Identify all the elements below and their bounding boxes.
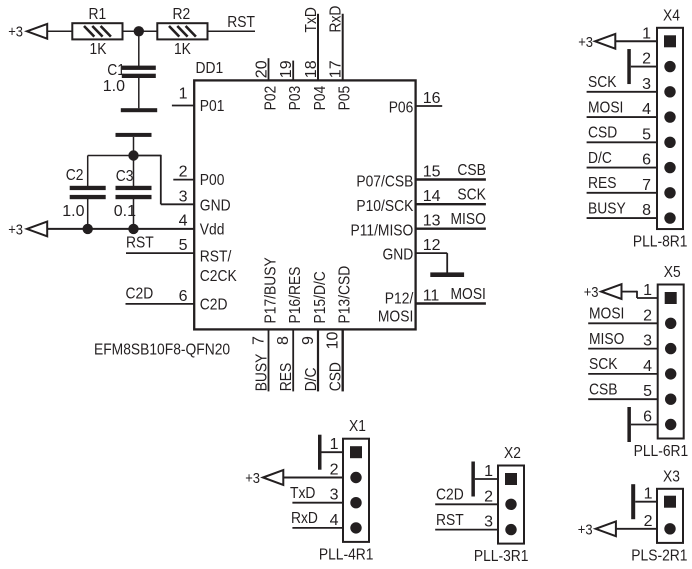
wire CSD to X4 pin 5 — [587, 141, 657, 143]
wire DD1 pin 15 to CSB — [416, 178, 486, 180]
wire MOSI to X5 pin 2 — [588, 322, 658, 324]
X1 pin 3 number — [330, 487, 339, 504]
svg-text:DD1: DD1 — [196, 60, 224, 77]
capacitor C1 — [122, 66, 156, 78]
DD1 pin name P02 — [263, 86, 280, 111]
DD1 pin 9 number — [300, 336, 317, 345]
DD1 pin name P13/CSD — [337, 266, 354, 324]
svg-text:D/C: D/C — [588, 150, 612, 167]
part label PLL-8R1 (X4) — [633, 234, 688, 251]
DD1 pin 20 stub — [268, 58, 270, 80]
svg-text:15: 15 — [423, 164, 441, 181]
wire C1 to ground — [138, 78, 140, 109]
svg-text:5: 5 — [642, 126, 651, 143]
net label RxD — [328, 6, 345, 33]
DD1 pin 14 number — [423, 188, 441, 205]
label DD1 — [196, 60, 224, 77]
wire DD1 pin 13 to MISO — [416, 227, 486, 229]
svg-text:1: 1 — [643, 282, 652, 299]
wire R1 to R2 — [123, 30, 158, 32]
label C2 — [66, 167, 84, 184]
wire MOSI to X4 pin 4 — [587, 116, 657, 118]
X1 pin 4 contact — [350, 522, 361, 533]
X1 pin 1 number — [330, 436, 339, 453]
wire DD1 pin 14 to SCK — [416, 203, 486, 205]
svg-text:C2D: C2D — [200, 297, 228, 314]
X2 pin 3 contact — [505, 524, 516, 535]
svg-text:+3: +3 — [584, 284, 599, 301]
svg-text:0.1: 0.1 — [114, 203, 136, 220]
DD1 pin 4 number — [179, 213, 188, 230]
svg-text:8: 8 — [275, 336, 292, 345]
net label CSB (pin 15) — [457, 162, 486, 179]
wire X2 pin 1 to ground — [475, 478, 498, 480]
DD1 pin 19 stub — [292, 61, 294, 81]
svg-text:P15/D/C: P15/D/C — [312, 271, 329, 323]
svg-text:+3: +3 — [578, 34, 593, 51]
power +3 flag (Vdd rail) — [8, 221, 47, 238]
X4 pin 1 contact (square) — [664, 35, 676, 47]
X2 pin 2 contact — [505, 499, 516, 510]
svg-text:10: 10 — [325, 332, 342, 350]
svg-text:R1: R1 — [89, 6, 107, 23]
svg-text:SCK: SCK — [588, 74, 617, 91]
X4 pin 8 contact — [664, 212, 675, 223]
DD1 pin 1 number — [179, 86, 188, 103]
svg-text:PLS-2R1: PLS-2R1 — [631, 547, 687, 564]
svg-text:+3: +3 — [245, 470, 260, 487]
wire +3 to X5 pin 1 — [622, 291, 658, 298]
label X5 — [664, 264, 681, 281]
DD1 pin name GND (pin 12) — [383, 247, 414, 264]
wire X5 pin 6 to ground — [631, 424, 658, 426]
svg-text:13: 13 — [423, 213, 441, 230]
part label PLL-4R1 (X1) — [319, 546, 374, 563]
DD1 pin 7 number — [251, 336, 268, 345]
DD1 pin 16 stub — [416, 105, 443, 107]
part label PLL-6R1 (X5) — [634, 443, 689, 460]
wire TxD to DD1 pin 18 — [317, 14, 319, 81]
junction node C2/+3 rail — [83, 224, 93, 234]
connector X3 body — [657, 489, 683, 543]
connector X1 body — [343, 439, 369, 542]
net label MISO (X5) — [589, 331, 624, 348]
DD1 pin 3 number — [179, 188, 188, 205]
DD1 pin 17 number — [328, 60, 345, 78]
net label TxD — [303, 7, 320, 32]
svg-text:C1: C1 — [107, 62, 125, 79]
svg-text:CSD: CSD — [328, 362, 345, 391]
svg-text:X4: X4 — [663, 7, 680, 24]
wire BUSY to X4 pin 8 — [587, 217, 657, 219]
svg-text:3: 3 — [643, 333, 652, 350]
wire RES to X4 pin 7 — [587, 192, 657, 194]
net label SCK (X5) — [589, 356, 618, 373]
junction node GND/C2/C3 — [128, 150, 138, 160]
DD1 pin 18 number — [303, 60, 320, 78]
wire GND net to DD1 pin 3 — [134, 155, 195, 205]
ground bar (pin 12) — [430, 272, 464, 277]
svg-text:2: 2 — [644, 513, 653, 530]
DD1 pin name P06 — [389, 100, 414, 117]
svg-text:4: 4 — [330, 512, 339, 529]
svg-text:P11/MISO: P11/MISO — [351, 223, 414, 240]
DD1 pin 10 wire — [342, 329, 344, 391]
X5 pin 2 number — [643, 307, 652, 324]
net label RES (pin 8) — [278, 363, 295, 392]
svg-text:2: 2 — [179, 164, 188, 181]
svg-text:11: 11 — [423, 288, 440, 305]
net label CSD (pin 10) — [328, 362, 345, 391]
svg-text:CSB: CSB — [589, 382, 618, 399]
ground bar (X3) — [631, 484, 635, 519]
X1 pin 3 contact — [350, 497, 361, 508]
X3 pin 1 contact (square) — [664, 496, 676, 508]
svg-text:MOSI: MOSI — [589, 306, 624, 323]
DD1 pin 12 number — [423, 237, 441, 254]
DD1 pin 9 wire — [317, 329, 319, 391]
X1 pin 2 number — [330, 462, 339, 479]
svg-text:C2D: C2D — [126, 285, 154, 302]
svg-text:MISO: MISO — [451, 211, 486, 228]
svg-text:P04: P04 — [312, 86, 329, 111]
DD1 pin name P04 — [312, 86, 329, 111]
ground bar (X4) — [627, 49, 631, 84]
svg-text:2: 2 — [330, 462, 339, 479]
wire C2 to +3 rail — [87, 199, 89, 229]
svg-text:6: 6 — [643, 409, 652, 426]
svg-text:P01: P01 — [200, 98, 225, 115]
X5 pin 6 contact — [665, 419, 676, 430]
wire X4 pin 2 to ground — [631, 66, 657, 68]
DD1 pin 6 number — [179, 288, 188, 305]
X3 pin 2 number — [644, 513, 653, 530]
svg-text:X1: X1 — [349, 418, 366, 435]
DD1 pin name P03 — [287, 86, 304, 111]
svg-text:C2D: C2D — [436, 487, 464, 504]
power +3 flag (X5) — [584, 284, 622, 301]
net label MISO (pin 13) — [451, 211, 486, 228]
net label CSB (X5) — [589, 382, 618, 399]
svg-text:CSB: CSB — [457, 162, 486, 179]
svg-text:P06: P06 — [389, 100, 414, 117]
X4 pin 3 contact — [664, 86, 675, 97]
svg-text:X5: X5 — [664, 264, 681, 281]
wire DD1 pin 11 to MOSI — [416, 302, 486, 304]
svg-text:20: 20 — [254, 60, 271, 78]
svg-text:2: 2 — [484, 488, 493, 505]
wire CSB to X5 pin 5 — [588, 398, 658, 400]
svg-text:MOSI: MOSI — [588, 99, 623, 116]
X5 pin 3 number — [643, 333, 652, 350]
svg-text:14: 14 — [423, 188, 441, 205]
wire +3 to X1 pin 2 — [283, 477, 343, 479]
connector X4 body — [657, 28, 683, 229]
DD1 pin name P16/RES — [287, 267, 304, 324]
X1 pin 1 contact (square) — [350, 446, 362, 458]
X4 pin 7 number — [642, 177, 651, 194]
X4 pin 2 contact — [664, 61, 675, 72]
DD1 pin 19 number — [278, 60, 295, 78]
svg-text:RST: RST — [126, 235, 154, 252]
svg-text:RES: RES — [278, 363, 295, 392]
net label BUSY (X4) — [588, 200, 626, 217]
svg-text:CSD: CSD — [588, 125, 617, 142]
svg-text:3: 3 — [179, 188, 188, 205]
label X3 — [663, 468, 680, 485]
svg-text:P02: P02 — [263, 86, 280, 111]
capacitor C3 — [116, 186, 152, 199]
svg-text:2: 2 — [642, 51, 651, 68]
svg-text:1K: 1K — [90, 41, 107, 58]
DD1 pin 20 number — [254, 60, 271, 78]
label R2 — [173, 6, 191, 23]
svg-text:P05: P05 — [337, 86, 354, 111]
connector X5 body — [658, 285, 684, 439]
wire C2D to DD1 pin 6 — [126, 303, 195, 305]
net label CSD (X4) — [588, 125, 617, 142]
DD1 pin name P10/SCK — [356, 198, 413, 215]
svg-text:1: 1 — [484, 463, 493, 480]
net label TxD (X1) — [290, 485, 315, 502]
svg-text:6: 6 — [642, 152, 651, 169]
svg-text:1: 1 — [644, 486, 653, 503]
net label BUSY (pin 7) — [253, 353, 270, 391]
svg-text:18: 18 — [303, 60, 320, 78]
op IC DD1 body — [194, 80, 415, 329]
svg-text:1: 1 — [642, 25, 651, 42]
value 1.0 (C1) — [103, 78, 125, 95]
svg-text:+3: +3 — [8, 24, 23, 41]
DD1 pin name P12/MOSI — [378, 291, 414, 326]
X3 pin 1 number — [644, 486, 653, 503]
svg-text:1: 1 — [179, 86, 188, 103]
power +3 flag (X3) — [578, 521, 616, 538]
X4 pin 3 number — [642, 76, 651, 93]
svg-text:8: 8 — [642, 202, 651, 219]
DD1 pin name P00 — [200, 172, 225, 189]
svg-text:PLL-4R1: PLL-4R1 — [319, 546, 374, 563]
svg-text:EFM8SB10F8-QFN20: EFM8SB10F8-QFN20 — [94, 342, 230, 359]
net label MOSI (X5) — [589, 306, 624, 323]
X4 pin 5 number — [642, 126, 651, 143]
DD1 pin 1 stub — [172, 105, 194, 107]
svg-text:MOSI: MOSI — [451, 286, 486, 303]
net label RST (top) — [227, 14, 255, 31]
svg-text:RST: RST — [436, 512, 464, 529]
label R1 — [89, 6, 107, 23]
part label PLS-2R1 (X3) — [631, 547, 687, 564]
svg-text:1: 1 — [330, 436, 339, 453]
svg-text:C2CK: C2CK — [200, 268, 237, 285]
svg-text:X3: X3 — [663, 468, 680, 485]
DD1 pin name GND — [200, 198, 231, 215]
X5 pin 2 contact — [665, 318, 676, 329]
resistor R1 — [72, 23, 122, 39]
label C3 — [116, 168, 134, 185]
DD1 pin 2 stub — [173, 179, 194, 181]
DD1 pin 8 number — [275, 336, 292, 345]
DD1 pin name C2D — [200, 297, 228, 314]
DD1 pin 2 number — [179, 164, 188, 181]
svg-text:MOSI: MOSI — [378, 309, 413, 326]
svg-text:4: 4 — [179, 213, 188, 230]
net label RxD (X1) — [291, 510, 318, 527]
value 1K (R2) — [174, 41, 191, 58]
DD1 pin 10 number — [325, 332, 342, 350]
X5 pin 4 number — [643, 358, 652, 375]
DD1 pin 5 number — [179, 237, 188, 254]
svg-text:3: 3 — [642, 76, 651, 93]
wire junction to C1 — [138, 31, 140, 66]
svg-text:4: 4 — [642, 101, 651, 118]
X4 pin 6 number — [642, 152, 651, 169]
svg-text:+3: +3 — [8, 221, 23, 238]
DD1 pin 15 number — [423, 164, 441, 181]
label X1 — [349, 418, 366, 435]
svg-text:R2: R2 — [173, 6, 191, 23]
X5 pin 6 number — [643, 409, 652, 426]
svg-text:MISO: MISO — [589, 331, 624, 348]
X4 pin 4 contact — [664, 111, 675, 122]
svg-text:RES: RES — [588, 175, 617, 192]
net label RST (X2) — [436, 512, 464, 529]
capacitor C2 — [70, 186, 106, 199]
wire RST to X2 pin 3 — [435, 529, 498, 531]
svg-text:7: 7 — [642, 177, 651, 194]
svg-text:P17/BUSY: P17/BUSY — [263, 257, 280, 323]
X5 pin 5 number — [643, 383, 652, 400]
X5 pin 1 number — [643, 282, 652, 299]
X5 pin 4 contact — [665, 368, 676, 379]
ground bar (X5) — [627, 407, 631, 442]
svg-text:SCK: SCK — [457, 187, 486, 204]
svg-text:P07/CSB: P07/CSB — [356, 173, 413, 190]
svg-text:1K: 1K — [174, 41, 191, 58]
wire junction to C3 — [133, 156, 135, 187]
svg-text:C2: C2 — [66, 167, 84, 184]
junction node R1/R2/C1 — [134, 26, 144, 36]
junction node C3/+3 rail — [128, 224, 138, 234]
svg-text:GND: GND — [200, 198, 231, 215]
DD1 pin 16 number — [423, 90, 441, 107]
net label SCK (pin 14) — [457, 187, 486, 204]
wire +3 to R1 — [47, 30, 72, 32]
X4 pin 2 number — [642, 51, 651, 68]
net label D/C (X4) — [588, 150, 612, 167]
svg-text:3: 3 — [330, 487, 339, 504]
X1 pin 2 contact — [350, 472, 361, 483]
svg-text:RxD: RxD — [291, 510, 318, 527]
power +3 flag (X1) — [245, 470, 283, 487]
DD1 pin name P11/MISO — [351, 223, 414, 240]
X4 pin 1 number — [642, 25, 651, 42]
wire MISO to X5 pin 3 — [588, 348, 658, 350]
X4 pin 8 number — [642, 202, 651, 219]
wire RST to DD1 pin 5 — [126, 252, 195, 254]
net label D/C (pin 9) — [303, 368, 320, 392]
DD1 pin 11 number — [423, 288, 440, 305]
X4 pin 7 contact — [664, 187, 675, 198]
DD1 pin 13 number — [423, 213, 441, 230]
svg-text:19: 19 — [278, 60, 295, 78]
ground bar (GND net) — [116, 133, 152, 137]
X2 pin 1 contact (square) — [505, 473, 517, 485]
svg-text:D/C: D/C — [303, 368, 320, 392]
svg-text:P13/CSD: P13/CSD — [337, 266, 354, 324]
svg-text:1.0: 1.0 — [62, 203, 84, 220]
label X2 — [504, 445, 521, 462]
svg-text:BUSY: BUSY — [588, 200, 626, 217]
wire +3 to X3 pin 2 — [616, 528, 657, 530]
part label PLL-3R1 (X2) — [474, 548, 529, 565]
ground bar (C1) — [121, 108, 157, 112]
svg-text:12: 12 — [423, 237, 441, 254]
X4 pin 4 number — [642, 101, 651, 118]
part number EFM8SB10F8-QFN20 — [94, 342, 230, 359]
svg-text:GND: GND — [383, 247, 414, 264]
svg-text:7: 7 — [251, 336, 268, 345]
net label MOSI (pin 11) — [451, 286, 486, 303]
connector X2 body — [498, 466, 524, 544]
wire C2D to X2 pin 2 — [435, 503, 498, 505]
value 0.1 (C3) — [114, 203, 136, 220]
net label C2D (X2) — [436, 487, 464, 504]
net label SCK (X4) — [588, 74, 617, 91]
wire RxD to DD1 pin 17 — [342, 14, 344, 81]
net label RST (pin 5) — [126, 235, 154, 252]
X2 pin 2 number — [484, 488, 493, 505]
wire D/C to X4 pin 6 — [587, 167, 657, 169]
svg-text:Vdd: Vdd — [200, 222, 225, 239]
DD1 pin name P05 — [337, 86, 354, 111]
DD1 pin name P17/BUSY — [263, 257, 280, 323]
svg-text:P10/SCK: P10/SCK — [356, 198, 413, 215]
svg-text:+3: +3 — [578, 521, 593, 538]
value 1K (R1) — [90, 41, 107, 58]
svg-text:RST: RST — [227, 14, 255, 31]
svg-text:P16/RES: P16/RES — [287, 267, 304, 324]
DD1 pin name P07/CSB — [356, 173, 413, 190]
svg-text:3: 3 — [484, 514, 493, 531]
net label C2D (pin 6) — [126, 285, 154, 302]
svg-text:X2: X2 — [504, 445, 521, 462]
svg-text:PLL-3R1: PLL-3R1 — [474, 548, 529, 565]
ground bar (X1) — [318, 435, 322, 470]
power +3 flag (top left) — [8, 24, 47, 41]
wire X1 pin 1 to ground — [321, 451, 343, 453]
svg-text:16: 16 — [423, 90, 441, 107]
DD1 pin 8 wire — [292, 329, 294, 391]
wire SCK to X4 pin 3 — [587, 91, 657, 93]
wire X3 pin 1 to ground — [635, 501, 657, 503]
wire C3 to +3 rail — [133, 199, 135, 229]
wire ground bar to junction — [133, 137, 135, 152]
label C1 — [107, 62, 125, 79]
power +3 flag (X4) — [578, 34, 615, 51]
X2 pin 1 number — [484, 463, 493, 480]
X4 pin 6 contact — [664, 162, 675, 173]
svg-text:6: 6 — [179, 288, 188, 305]
X5 pin 5 contact — [665, 394, 676, 405]
X5 pin 1 contact (square) — [665, 292, 677, 304]
svg-text:P03: P03 — [287, 86, 304, 111]
DD1 pin name P01 — [200, 98, 225, 115]
X1 pin 4 number — [330, 512, 339, 529]
net label RES (X4) — [588, 175, 617, 192]
DD1 pin name RST/C2CK — [200, 249, 237, 286]
X5 pin 3 contact — [665, 343, 676, 354]
